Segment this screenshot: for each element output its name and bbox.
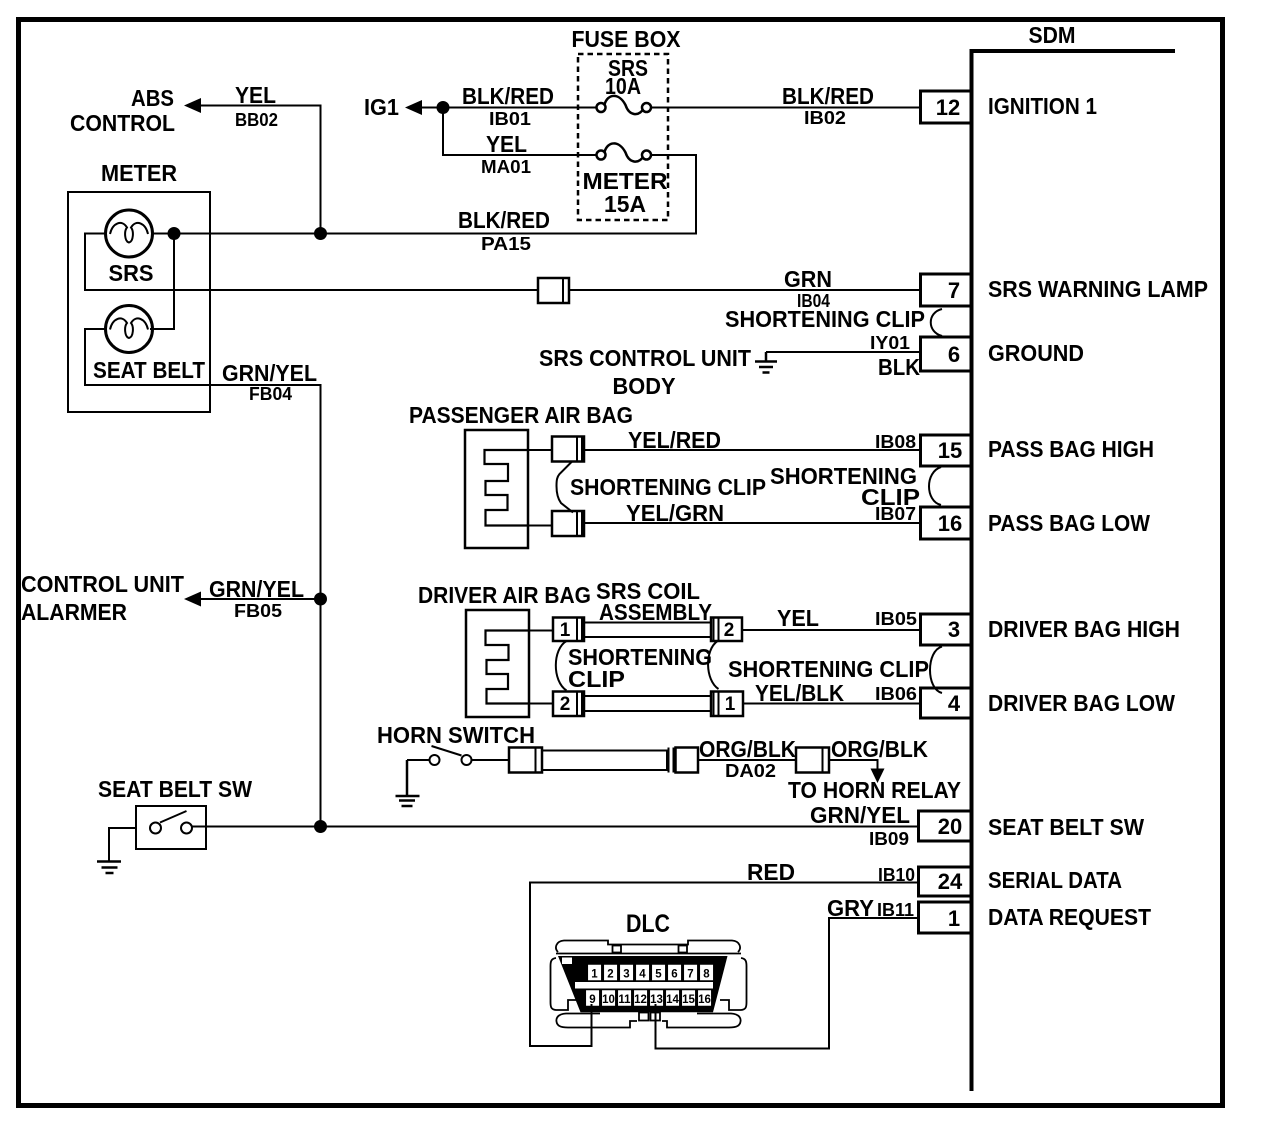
- svg-text:METER: METER: [101, 160, 177, 186]
- svg-text:ABS: ABS: [131, 85, 174, 111]
- svg-text:6: 6: [948, 342, 960, 367]
- svg-text:IGNITION 1: IGNITION 1: [988, 93, 1097, 119]
- wire YEL to ABS CONTROL: [199, 106, 321, 234]
- passenger air bag squib: [485, 450, 529, 526]
- svg-text:IB02: IB02: [804, 108, 846, 128]
- svg-text:CLIP: CLIP: [861, 484, 920, 510]
- svg-text:YEL: YEL: [777, 605, 819, 631]
- svg-text:10: 10: [602, 994, 615, 1006]
- wire GRY IB11 to pin 1: [656, 918, 919, 1049]
- svg-text:RED: RED: [747, 859, 795, 885]
- svg-text:IB10: IB10: [878, 865, 915, 885]
- svg-text:20: 20: [938, 814, 962, 839]
- node junction FB05 branch: [314, 593, 327, 606]
- arrow to IG1: [405, 100, 422, 115]
- svg-text:14: 14: [666, 994, 679, 1006]
- svg-text:IB06: IB06: [875, 684, 917, 704]
- svg-text:SHORTENING CLIP: SHORTENING CLIP: [728, 656, 929, 682]
- wire GRN/YEL FB05: [199, 598, 321, 600]
- shortening clip at passenger connectors: [557, 462, 574, 513]
- svg-text:IB11: IB11: [877, 900, 914, 920]
- svg-text:10A: 10A: [605, 73, 641, 99]
- SRS coil cable top: [584, 623, 711, 638]
- wire YEL/GRN IB07 to pin 16: [584, 522, 921, 524]
- svg-text:MA01: MA01: [481, 157, 531, 177]
- svg-text:3: 3: [948, 617, 960, 642]
- seat belt switch box: [136, 806, 206, 849]
- wire to coil connector 1: [529, 630, 553, 632]
- wire BLK/RED IB02 from fuse F1 to pin 12: [651, 107, 921, 109]
- svg-text:8: 8: [703, 969, 710, 981]
- ground at horn switch: [396, 760, 420, 806]
- svg-text:1: 1: [560, 620, 571, 641]
- svg-text:1: 1: [591, 969, 598, 981]
- pin 6: [921, 337, 972, 371]
- svg-text:2: 2: [724, 620, 735, 641]
- svg-text:7: 7: [948, 278, 960, 303]
- horn cable body: [542, 751, 667, 771]
- svg-text:11: 11: [618, 994, 631, 1006]
- svg-text:GROUND: GROUND: [988, 340, 1084, 366]
- svg-text:SRS WARNING LAMP: SRS WARNING LAMP: [988, 276, 1208, 302]
- connector on GRN wire: [538, 278, 569, 303]
- svg-text:1: 1: [725, 694, 736, 715]
- DLC pin cells 9-16: [585, 990, 712, 1007]
- svg-text:4: 4: [948, 691, 961, 716]
- svg-text:IB09: IB09: [869, 829, 909, 849]
- svg-text:DA02: DA02: [725, 761, 776, 781]
- DLC center white band: [575, 982, 713, 989]
- wire from DLC pin 13: [655, 1004, 657, 1049]
- wire ground to horn switch: [407, 759, 430, 761]
- coil connector pin 2 bottom: [553, 692, 584, 717]
- horn cable connector left: [509, 748, 542, 773]
- svg-text:FB04: FB04: [249, 384, 292, 404]
- svg-text:ASSEMBLY: ASSEMBLY: [599, 599, 712, 625]
- svg-text:1: 1: [948, 906, 960, 931]
- svg-text:YEL: YEL: [235, 82, 276, 108]
- SDM unit box: [970, 49, 1176, 1091]
- wire GRN/YEL FB04 from seat belt lamp: [85, 329, 321, 827]
- DLC keying notch: [562, 958, 572, 965]
- wire from SRS lamp left to pin 7 (GRN IB04): [85, 234, 538, 291]
- wire BLK/RED IB01 to fuse F1: [420, 107, 597, 109]
- svg-text:16: 16: [938, 511, 962, 536]
- svg-text:SHORTENING CLIP: SHORTENING CLIP: [725, 306, 925, 332]
- wire from SRS lamp junction down to seat belt lamp: [150, 234, 174, 330]
- ground at seat belt switch: [97, 862, 121, 874]
- arrow to CONTROL UNIT ALARMER: [184, 592, 201, 607]
- pin 7: [921, 274, 972, 306]
- pin 20: [919, 811, 972, 841]
- wire YEL MA01 to fuse F2: [443, 108, 597, 156]
- shortening clip at driver connectors: [556, 641, 567, 691]
- pin 3: [921, 614, 972, 645]
- svg-text:FB05: FB05: [234, 601, 282, 621]
- node junction at YEL branch: [314, 227, 327, 240]
- wire GRN/YEL IB09 to pin 20: [192, 826, 919, 828]
- wire to passenger connector low: [528, 525, 552, 527]
- svg-text:IB01: IB01: [489, 109, 531, 129]
- fuse box dashed outline: [578, 54, 668, 220]
- svg-text:SERIAL DATA: SERIAL DATA: [988, 867, 1122, 893]
- svg-text:ORG/BLK: ORG/BLK: [831, 736, 928, 762]
- svg-text:PASS BAG HIGH: PASS BAG HIGH: [988, 436, 1154, 462]
- pin 24: [919, 867, 972, 896]
- pin 15: [921, 435, 972, 466]
- connector on ORG/BLK wire: [796, 748, 829, 773]
- shortening clip at pins 3-4: [930, 647, 942, 694]
- svg-text:PASSENGER AIR BAG: PASSENGER AIR BAG: [409, 402, 633, 428]
- svg-text:15: 15: [938, 438, 962, 463]
- svg-text:GRN/YEL: GRN/YEL: [222, 360, 317, 386]
- pin 16: [921, 507, 972, 539]
- svg-text:GRN: GRN: [784, 266, 832, 292]
- svg-text:BB02: BB02: [235, 110, 278, 130]
- svg-text:BODY: BODY: [613, 373, 676, 399]
- svg-text:GRN/YEL: GRN/YEL: [209, 576, 304, 602]
- svg-text:2: 2: [560, 694, 571, 715]
- fuse F2 METER 15A: [597, 143, 652, 161]
- DLC pin cells 1-8: [587, 964, 714, 981]
- arrow to ABS CONTROL: [184, 98, 201, 113]
- wire from DLC pin 9: [591, 1004, 593, 1046]
- coil connector pin 2 top: [711, 618, 742, 642]
- fuse F1 SRS 10A: [597, 96, 652, 114]
- DLC connector top flange: [556, 941, 741, 954]
- wire seat belt switch to ground: [109, 828, 136, 861]
- svg-text:5: 5: [655, 969, 662, 981]
- wire to coil connector 2 bottom: [529, 703, 553, 705]
- SRS coil cable bottom: [584, 696, 711, 711]
- coil connector pin 1 top: [553, 618, 584, 642]
- svg-text:BLK/RED: BLK/RED: [458, 207, 550, 233]
- svg-text:SEAT BELT: SEAT BELT: [93, 357, 205, 383]
- horn switch contacts: [430, 746, 472, 765]
- shortening clip at pins 7-6: [931, 309, 942, 336]
- wire RED IB10 to pin 24: [530, 883, 919, 1047]
- svg-text:GRN/YEL: GRN/YEL: [810, 802, 910, 828]
- svg-text:12: 12: [936, 95, 960, 120]
- coil connector pin 1 bottom: [711, 692, 743, 717]
- svg-text:SHORTENING CLIP: SHORTENING CLIP: [570, 474, 766, 500]
- svg-text:BLK: BLK: [878, 354, 920, 380]
- svg-text:16: 16: [698, 994, 711, 1006]
- wire ORG/BLK DA02: [698, 759, 796, 761]
- DLC connector side flanges: [551, 958, 747, 1010]
- svg-text:IB05: IB05: [875, 609, 917, 629]
- svg-text:GRY: GRY: [827, 895, 874, 921]
- svg-text:IY01: IY01: [870, 333, 910, 353]
- svg-text:CONTROL UNIT: CONTROL UNIT: [21, 571, 184, 597]
- shortening clip at SRS coil: [708, 641, 718, 689]
- svg-text:SEAT BELT SW: SEAT BELT SW: [98, 776, 252, 802]
- wire YEL IB05 to pin 3: [742, 629, 921, 631]
- svg-text:IG1: IG1: [364, 94, 399, 120]
- svg-text:SRS CONTROL UNIT: SRS CONTROL UNIT: [539, 345, 751, 371]
- node junction seat belt wire: [314, 820, 327, 833]
- svg-text:3: 3: [623, 969, 629, 981]
- svg-text:6: 6: [671, 969, 677, 981]
- svg-text:YEL: YEL: [486, 131, 527, 157]
- node junction at SRS lamp: [168, 227, 181, 240]
- svg-text:15A: 15A: [604, 191, 646, 217]
- wire horn switch to cable: [472, 759, 510, 761]
- svg-text:12: 12: [634, 994, 647, 1006]
- svg-text:DRIVER BAG LOW: DRIVER BAG LOW: [988, 690, 1175, 716]
- node junction on IG1 wire: [437, 101, 450, 114]
- svg-text:DLC: DLC: [626, 910, 670, 938]
- svg-text:2: 2: [607, 969, 613, 981]
- driver air bag squib: [486, 631, 530, 704]
- svg-text:DRIVER AIR BAG: DRIVER AIR BAG: [418, 582, 591, 608]
- SRS warning lamp: [106, 210, 153, 257]
- svg-text:FUSE BOX: FUSE BOX: [572, 26, 682, 52]
- SEAT BELT lamp: [106, 306, 153, 353]
- wire BLK/RED PA15 from fuse F2 to meter: [152, 155, 696, 234]
- connector on YEL/RED wire: [552, 437, 584, 462]
- svg-text:15: 15: [682, 994, 695, 1006]
- ground (SRS control unit body): [755, 352, 777, 373]
- passenger air bag unit box: [465, 430, 528, 548]
- svg-text:DRIVER BAG HIGH: DRIVER BAG HIGH: [988, 616, 1180, 642]
- svg-text:7: 7: [687, 969, 693, 981]
- pin 12: [921, 91, 972, 123]
- wire ORG/BLK to horn relay: [829, 760, 878, 770]
- DLC connector body: [558, 956, 728, 1012]
- METER unit box: [68, 192, 210, 412]
- pin 1: [919, 902, 972, 933]
- svg-text:SEAT BELT SW: SEAT BELT SW: [988, 814, 1144, 840]
- wire GRN IB04 to pin 7: [569, 289, 921, 291]
- DLC connector bottom flange: [556, 1013, 740, 1028]
- svg-text:YEL/RED: YEL/RED: [628, 427, 721, 453]
- svg-text:PASS BAG LOW: PASS BAG LOW: [988, 510, 1150, 536]
- svg-text:IB08: IB08: [875, 432, 916, 452]
- svg-text:CLIP: CLIP: [568, 666, 625, 692]
- svg-text:HORN SWITCH: HORN SWITCH: [377, 722, 535, 748]
- wire YEL/RED IB08 to pin 15: [584, 449, 921, 451]
- svg-text:SRS: SRS: [109, 260, 154, 286]
- svg-text:YEL/BLK: YEL/BLK: [755, 680, 844, 706]
- svg-text:PA15: PA15: [481, 234, 531, 254]
- svg-text:24: 24: [938, 869, 963, 894]
- horn cable connector right: [669, 748, 699, 773]
- svg-text:DATA REQUEST: DATA REQUEST: [988, 904, 1151, 930]
- svg-text:YEL/GRN: YEL/GRN: [626, 500, 724, 526]
- svg-text:ALARMER: ALARMER: [21, 599, 127, 625]
- wire IY01 BLK to pin 6: [766, 351, 921, 353]
- driver air bag unit box: [466, 610, 529, 717]
- svg-text:TO HORN RELAY: TO HORN RELAY: [788, 777, 961, 803]
- shortening clip at pins 15-16: [929, 467, 941, 505]
- seat belt switch contacts: [150, 811, 192, 834]
- pin 4: [921, 688, 972, 718]
- svg-text:4: 4: [639, 969, 646, 981]
- wire to passenger connector high: [528, 449, 552, 451]
- svg-text:BLK/RED: BLK/RED: [462, 83, 554, 109]
- wire YEL/BLK IB06 to pin 4: [743, 703, 921, 705]
- connector on YEL/GRN wire: [552, 511, 584, 536]
- svg-text:BLK/RED: BLK/RED: [782, 83, 874, 109]
- svg-text:ORG/BLK: ORG/BLK: [699, 736, 796, 762]
- arrow to horn relay: [871, 769, 885, 784]
- svg-text:SDM: SDM: [1029, 22, 1076, 48]
- svg-text:CONTROL: CONTROL: [70, 110, 175, 136]
